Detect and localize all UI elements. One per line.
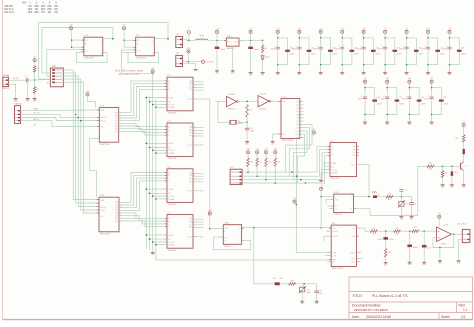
ground X2 <box>457 259 462 265</box>
svg-text:10k: 10k <box>396 228 399 230</box>
junction <box>146 143 148 145</box>
svg-text:Q4: Q4 <box>296 111 298 113</box>
svg-text:CLEAR: CLEAR <box>331 172 338 175</box>
wire IC8 pin stub1 <box>326 230 331 232</box>
ground decouple 3 <box>340 70 345 76</box>
svg-text:ON: ON <box>41 12 45 14</box>
junction <box>296 204 298 206</box>
svg-text:74HCT595: 74HCT595 <box>100 144 111 146</box>
wire R13 to bead <box>463 142 465 149</box>
wire select 3 <box>242 153 330 180</box>
wire trimmer gnd <box>400 206 402 214</box>
wire IC2 LOAD <box>146 97 167 99</box>
wire SW1 right 3 <box>63 76 99 207</box>
wire IC5 feedback loop <box>128 52 159 62</box>
wire IC2 Q1 stub <box>193 84 204 86</box>
svg-text:100uF: 100uF <box>375 54 380 56</box>
wire IC3 CLEAR <box>156 152 167 154</box>
ground decouple 1 <box>297 70 302 76</box>
junction <box>152 73 154 75</box>
resistor R8 pullup <box>274 158 277 167</box>
wire inverter2 out to 4040 <box>271 100 281 102</box>
wire IC6 Q0 stub <box>193 172 204 174</box>
wire +5V IC4 down <box>70 30 73 47</box>
svg-text:74HC160: 74HC160 <box>331 178 341 180</box>
svg-text:74HC160: 74HC160 <box>168 158 178 160</box>
vcc +12V aux <box>186 48 191 53</box>
ground input bias <box>33 96 38 102</box>
wire IC5 Q right <box>154 38 168 40</box>
ground AMS1117 <box>231 69 236 75</box>
ground decouple 12 <box>430 120 435 126</box>
svg-text:74HC04: 74HC04 <box>259 108 267 110</box>
junction <box>188 61 190 63</box>
wire rail D <box>155 99 157 260</box>
svg-text:CLEAR: CLEAR <box>168 106 175 109</box>
wire IC7 Q1 stub <box>193 221 204 223</box>
wire bead to collector <box>463 154 465 162</box>
switch SW1 DIP-5 <box>50 66 63 87</box>
counter IC11 74HCT4040 <box>279 97 302 143</box>
ground input cap2 <box>26 96 31 102</box>
svg-text:DEMO: DEMO <box>350 252 356 254</box>
op-amp IC10B inverter 74HC04 <box>258 96 269 107</box>
svg-text:ON: ON <box>35 9 39 11</box>
resistor R4 osc feedback <box>246 105 249 118</box>
junction <box>34 79 36 81</box>
wire decouple loop <box>321 38 331 65</box>
junction <box>442 166 444 168</box>
svg-text:LOAD: LOAD <box>168 234 174 237</box>
wire IC5 pin1 <box>124 39 136 41</box>
wire decouple main <box>277 34 279 47</box>
wire IC2 Q3 stub <box>193 89 204 91</box>
capacitor C41 electrolytic <box>307 50 312 52</box>
wire +5V out down <box>250 34 252 41</box>
svg-text:100k: 100k <box>429 169 433 171</box>
svg-text:LED1: LED1 <box>265 57 270 59</box>
capacitor C14 27pF <box>245 127 249 129</box>
wire +5V opamp <box>438 218 440 227</box>
wire IC3 RCO stub <box>193 144 199 146</box>
capacitor C34 ceramic <box>362 46 366 48</box>
ground opamp <box>438 259 443 265</box>
vcc +5V pullup R7 <box>264 149 268 154</box>
wire +5V IC5 down <box>123 30 125 47</box>
capacitor C30 ceramic <box>276 46 280 48</box>
svg-text:100uF: 100uF <box>354 54 359 56</box>
wire IC9A clk in <box>210 228 224 230</box>
svg-text:4.7k: 4.7k <box>388 252 391 254</box>
wire C12 lead <box>216 40 218 46</box>
svg-text:ON: ON <box>48 12 52 14</box>
capacitor C39 ceramic <box>363 96 367 98</box>
wire LATCH <box>21 118 100 121</box>
wire IC7b RCO <box>357 165 370 197</box>
svg-text:100nF: 100nF <box>335 49 340 51</box>
wire R12 gnd <box>442 178 444 184</box>
capacitor C43 electrolytic <box>350 50 355 52</box>
junction <box>149 101 151 103</box>
wire IC2 CLEAR <box>156 106 167 108</box>
wire OE <box>21 121 100 127</box>
svg-text:C16: C16 <box>413 204 416 206</box>
wire IC7 Q0 stub <box>193 218 204 220</box>
resistor R3 LED <box>261 45 264 53</box>
vcc +5V decouple 9 <box>363 80 366 83</box>
wire IC13 Q2 to IC4c <box>119 178 167 208</box>
wire IC13 Q6 to IC5c <box>119 218 167 224</box>
svg-text:1/1: 1/1 <box>461 315 466 319</box>
wire IC8 pin stub5 <box>327 261 331 263</box>
counter IC2 74HC160 <box>165 75 196 114</box>
connector JP3 divider select <box>230 167 242 185</box>
svg-text:C21: C21 <box>273 278 276 280</box>
wire IC8 right stub3 <box>356 261 360 263</box>
wire pullup R5 top <box>247 154 249 158</box>
vcc +5V decouple 10 <box>386 80 389 83</box>
svg-text:100uF: 100uF <box>461 54 466 56</box>
wire select 4 <box>242 156 330 183</box>
svg-text:OFF: OFF <box>47 6 52 8</box>
wire IC7 Q3 stub <box>193 227 204 229</box>
svg-text:REV:: REV: <box>459 303 466 307</box>
svg-text:R17: R17 <box>414 227 417 229</box>
wire IC11 Q6 stub <box>300 117 304 119</box>
svg-text:CLOCK: CLOCK <box>168 104 175 106</box>
svg-text:100nF: 100nF <box>378 49 383 51</box>
resistor R6 pullup <box>256 158 259 167</box>
junction <box>123 40 125 42</box>
wire IC11 Q4 stub <box>300 110 304 112</box>
junction <box>439 247 441 249</box>
junction <box>423 230 425 232</box>
svg-text:LATCH: LATCH <box>33 118 40 121</box>
wire pullup R8 bottom <box>274 167 276 184</box>
ground C19 <box>408 260 413 266</box>
wire IC12 Q1 to IC2 <box>119 84 167 116</box>
wire IC4 pin1 <box>72 39 84 41</box>
wire R3 to LED <box>262 53 264 56</box>
wire IC3 Q2 stub <box>193 132 204 134</box>
wire R4 down <box>246 117 248 122</box>
svg-text:74HC04: 74HC04 <box>228 108 236 110</box>
wire decouple main <box>384 34 386 47</box>
op-amp IC4 divider 74HC4017 <box>82 35 106 59</box>
capacitor C48 electrolytic <box>457 50 462 52</box>
vcc +5V decouple 7 <box>426 30 429 33</box>
svg-text:CL: CL <box>225 241 227 243</box>
junction <box>155 198 157 200</box>
svg-text:OFF: OFF <box>41 9 46 11</box>
wire rail A <box>145 95 147 248</box>
svg-text:TITLE:: TITLE: <box>352 294 363 298</box>
wire IC9A feedback <box>214 237 251 250</box>
svg-text:100uF: 100uF <box>397 54 402 56</box>
wire IC9A out bus <box>242 227 332 229</box>
wire node to C16 <box>411 197 413 203</box>
svg-text:C48: C48 <box>461 47 464 49</box>
wire JP2 pin2 gnd <box>183 64 196 68</box>
wire R12 leads <box>442 166 444 170</box>
ground LED <box>261 70 266 76</box>
svg-text:SW1: SW1 <box>52 66 56 68</box>
wire C21 to R18 <box>280 283 289 285</box>
capacitor C50 electrolytic <box>395 100 400 102</box>
svg-text:Sheet:: Sheet: <box>441 315 450 319</box>
ground decouple 10 <box>385 120 390 126</box>
junction <box>253 227 255 229</box>
junction <box>152 150 154 152</box>
svg-text:R16: R16 <box>395 234 398 236</box>
wire IC11 bus 4 <box>298 134 305 183</box>
wire rail to L1 <box>189 39 196 41</box>
vcc +5V IC12 <box>86 91 90 96</box>
svg-text:100nF: 100nF <box>421 49 426 51</box>
svg-text:CL: CL <box>335 209 337 211</box>
wire +12V down <box>216 34 218 41</box>
junction <box>77 117 79 119</box>
ground C16 <box>409 214 414 220</box>
wire IC12 Q5 to IC3 <box>119 126 167 130</box>
ground IC11 <box>271 139 276 145</box>
wire rail B <box>149 96 151 250</box>
trimmer CT1 <box>399 202 404 207</box>
junction <box>152 195 154 197</box>
svg-text:Q3: Q3 <box>296 108 298 110</box>
svg-text:100uF: 100uF <box>440 54 445 56</box>
transistor T1 <box>460 163 462 170</box>
wire IC3 Q3 stub <box>193 135 204 137</box>
svg-text:AMS1117: AMS1117 <box>227 47 237 50</box>
wire decouple loop <box>278 38 288 65</box>
junction <box>149 193 151 195</box>
wire IC12 Q0 to IC2 <box>119 81 167 113</box>
diode LED1 <box>261 56 265 59</box>
svg-text:10k: 10k <box>455 138 458 140</box>
wire IC7 LOAD <box>146 234 167 236</box>
ground IC7b <box>319 178 323 181</box>
wire AMS out rail <box>239 39 263 41</box>
vcc +5V decouple 4 <box>362 30 365 33</box>
svg-text:R14: R14 <box>372 234 375 236</box>
wire decouple main <box>449 34 451 47</box>
wire JP1 to rail <box>183 39 189 40</box>
wire C15 lead <box>400 191 402 197</box>
svg-text:TL071: TL071 <box>441 244 448 246</box>
wire IC13 Q0 to IC4c <box>119 173 167 203</box>
wire L1 to AMS <box>208 39 227 41</box>
vcc +5V decouple 12 <box>430 80 433 83</box>
svg-text:SRCLK: SRCLK <box>101 117 108 119</box>
wire C16 gnd <box>411 204 413 214</box>
svg-text:100nF: 100nF <box>358 99 363 101</box>
junction <box>146 97 148 99</box>
capacitor C40 electrolytic <box>285 50 290 52</box>
counter IC3 74HC160 <box>165 121 196 160</box>
junction <box>152 104 154 106</box>
svg-text:100nF: 100nF <box>380 99 385 101</box>
wire decouple main <box>341 34 343 47</box>
ground decouple 4 <box>362 70 367 76</box>
resistor R13 collector <box>462 135 465 142</box>
vcc +5V decouple 11 <box>408 80 411 83</box>
svg-text:DIV: DIV <box>23 2 27 4</box>
node +12V tap circle <box>202 60 205 63</box>
svg-text:(R to GND to reduce noise): (R to GND to reduce noise) <box>115 70 143 73</box>
svg-text:74HC4017: 74HC4017 <box>136 57 147 59</box>
wire decouple loop <box>387 88 397 115</box>
connector JP1 power <box>176 34 183 47</box>
capacitor C44 electrolytic <box>371 50 376 52</box>
capacitor C45 electrolytic <box>393 50 398 52</box>
junction <box>149 147 151 149</box>
wire SW1 loop inner <box>42 28 113 73</box>
ground R15 <box>384 260 389 266</box>
inductor L2 coil mark <box>372 192 376 193</box>
svg-text:CLOCK: CLOCK <box>331 170 338 172</box>
wire crystal left leg <box>215 101 229 122</box>
vcc +12V in <box>215 28 220 33</box>
wire rail C <box>152 73 154 250</box>
svg-text:DIV by 2: DIV by 2 <box>5 9 15 11</box>
wire decouple loop <box>365 88 375 115</box>
junction <box>451 166 453 168</box>
resistor R5 pullup <box>247 158 250 167</box>
svg-text:74HC74: 74HC74 <box>334 214 342 216</box>
wire IC4 feedback loop <box>76 52 107 62</box>
resistor R11 100k <box>427 165 434 168</box>
svg-text:RF IN: RF IN <box>13 78 19 80</box>
inductor L2 bead <box>373 195 377 198</box>
capacitor C22 <box>315 290 319 292</box>
wire IC11 Q11 stub <box>300 133 304 135</box>
junction <box>320 196 322 198</box>
wire decouple main <box>363 34 365 47</box>
wire C17 leads <box>451 166 453 171</box>
wire IC7b ctrl1 <box>324 163 330 166</box>
junction <box>265 179 267 181</box>
wire IC3 Q0 stub <box>193 127 204 129</box>
svg-text:10k: 10k <box>444 173 447 175</box>
ground decouple 11 <box>407 120 412 126</box>
wire IC7b ctrl3 <box>321 173 330 179</box>
resistor R7 pullup <box>265 158 268 167</box>
capacitor C21 coupling <box>275 282 280 285</box>
junction <box>146 188 148 190</box>
junction <box>296 175 298 177</box>
wire IC12 Q4 to IC3 <box>119 123 167 126</box>
wire C17 gnd <box>451 176 453 183</box>
wire IC12 Q2 to IC2 <box>119 87 167 119</box>
junction <box>155 152 157 154</box>
svg-text:220nF: 220nF <box>377 239 383 241</box>
wire decouple loop <box>385 38 395 65</box>
svg-text:RCLK: RCLK <box>100 210 106 212</box>
svg-text:SIGIN: SIGIN <box>332 231 338 233</box>
wire IC7b ctrl2 <box>322 170 330 179</box>
ground C17 <box>450 183 455 189</box>
flip-flop IC16 74HC74 <box>331 192 355 216</box>
wire IC12 cascade <box>90 138 100 197</box>
svg-text:PLL Board v1.2 all TTL: PLL Board v1.2 all TTL <box>372 294 409 298</box>
ground decouple 0 <box>276 70 281 76</box>
wire opamp out <box>452 233 463 235</box>
svg-text:74HC160: 74HC160 <box>168 112 178 114</box>
capacitor C35 ceramic <box>383 46 387 48</box>
wire SW1 right 2 <box>63 73 99 203</box>
wire decouple loop <box>432 88 442 115</box>
wire IC3 Q1 stub <box>193 129 204 131</box>
vcc +5V decouple 8 <box>448 30 451 33</box>
junction <box>146 234 148 236</box>
svg-text:74HCT595: 74HCT595 <box>100 233 111 235</box>
vcc +5V pullup R8 <box>274 149 278 154</box>
wire IC16 CL <box>329 208 334 210</box>
svg-text:Q7: Q7 <box>296 121 298 123</box>
ground counter rail <box>151 250 156 256</box>
wire feedback gnd stub <box>439 248 441 260</box>
wire rail A gnd <box>145 248 147 249</box>
ground C22 <box>315 299 320 305</box>
capacitor C42 electrolytic <box>328 50 333 52</box>
resistor R17 <box>412 230 419 233</box>
svg-text:100nF: 100nF <box>270 49 275 51</box>
junction <box>71 46 73 48</box>
capacitor C42 ceramic <box>430 96 434 98</box>
svg-text:100uF: 100uF <box>311 54 316 56</box>
wire R11 to base <box>434 165 460 167</box>
svg-text:10k: 10k <box>259 161 262 163</box>
wire C14 lead <box>246 122 248 128</box>
wire bias node down <box>34 80 36 87</box>
junction <box>152 241 154 243</box>
capacitor C17 <box>451 171 453 176</box>
svg-text:100uF: 100uF <box>418 54 423 56</box>
junction <box>300 179 302 181</box>
junction <box>320 227 322 229</box>
svg-text:CLEAR: CLEAR <box>168 152 175 155</box>
svg-text:100nF: 100nF <box>292 49 297 51</box>
wire decouple loop <box>407 38 417 65</box>
ground decouple 7 <box>426 70 431 76</box>
capacitor C20 10uF <box>422 245 427 248</box>
capacitor C31 ceramic <box>297 46 301 48</box>
wire IC6 Q2 stub <box>193 178 204 180</box>
wire IC8 right stub2 <box>356 258 362 260</box>
inductor L4 bead <box>463 149 465 154</box>
wire decouple main <box>320 34 322 47</box>
wire decouple loop <box>409 88 419 115</box>
node VIN pin circle <box>187 31 190 34</box>
wire L2 to R10 <box>377 196 386 198</box>
svg-text:RCO: RCO <box>188 99 193 101</box>
svg-text:R18: R18 <box>290 281 293 283</box>
svg-text:100nF: 100nF <box>402 99 407 101</box>
junction <box>75 114 77 116</box>
svg-text:L2: L2 <box>378 195 380 197</box>
wire pullup R7 top <box>265 154 267 158</box>
wire IC2 Q2 stub <box>193 86 204 88</box>
wire IC11 Q1 stub <box>300 101 304 103</box>
vcc +5V pullup R6 <box>255 149 259 154</box>
wire IC16 D <box>321 196 334 198</box>
wire C19 lead <box>409 231 411 244</box>
svg-text:DESIGNED BY LUIGI ERICE: DESIGNED BY LUIGI ERICE <box>354 308 388 312</box>
wire +12V aux down <box>187 53 189 62</box>
svg-text:R11: R11 <box>429 163 432 165</box>
connector JP2 aux power <box>176 53 183 66</box>
